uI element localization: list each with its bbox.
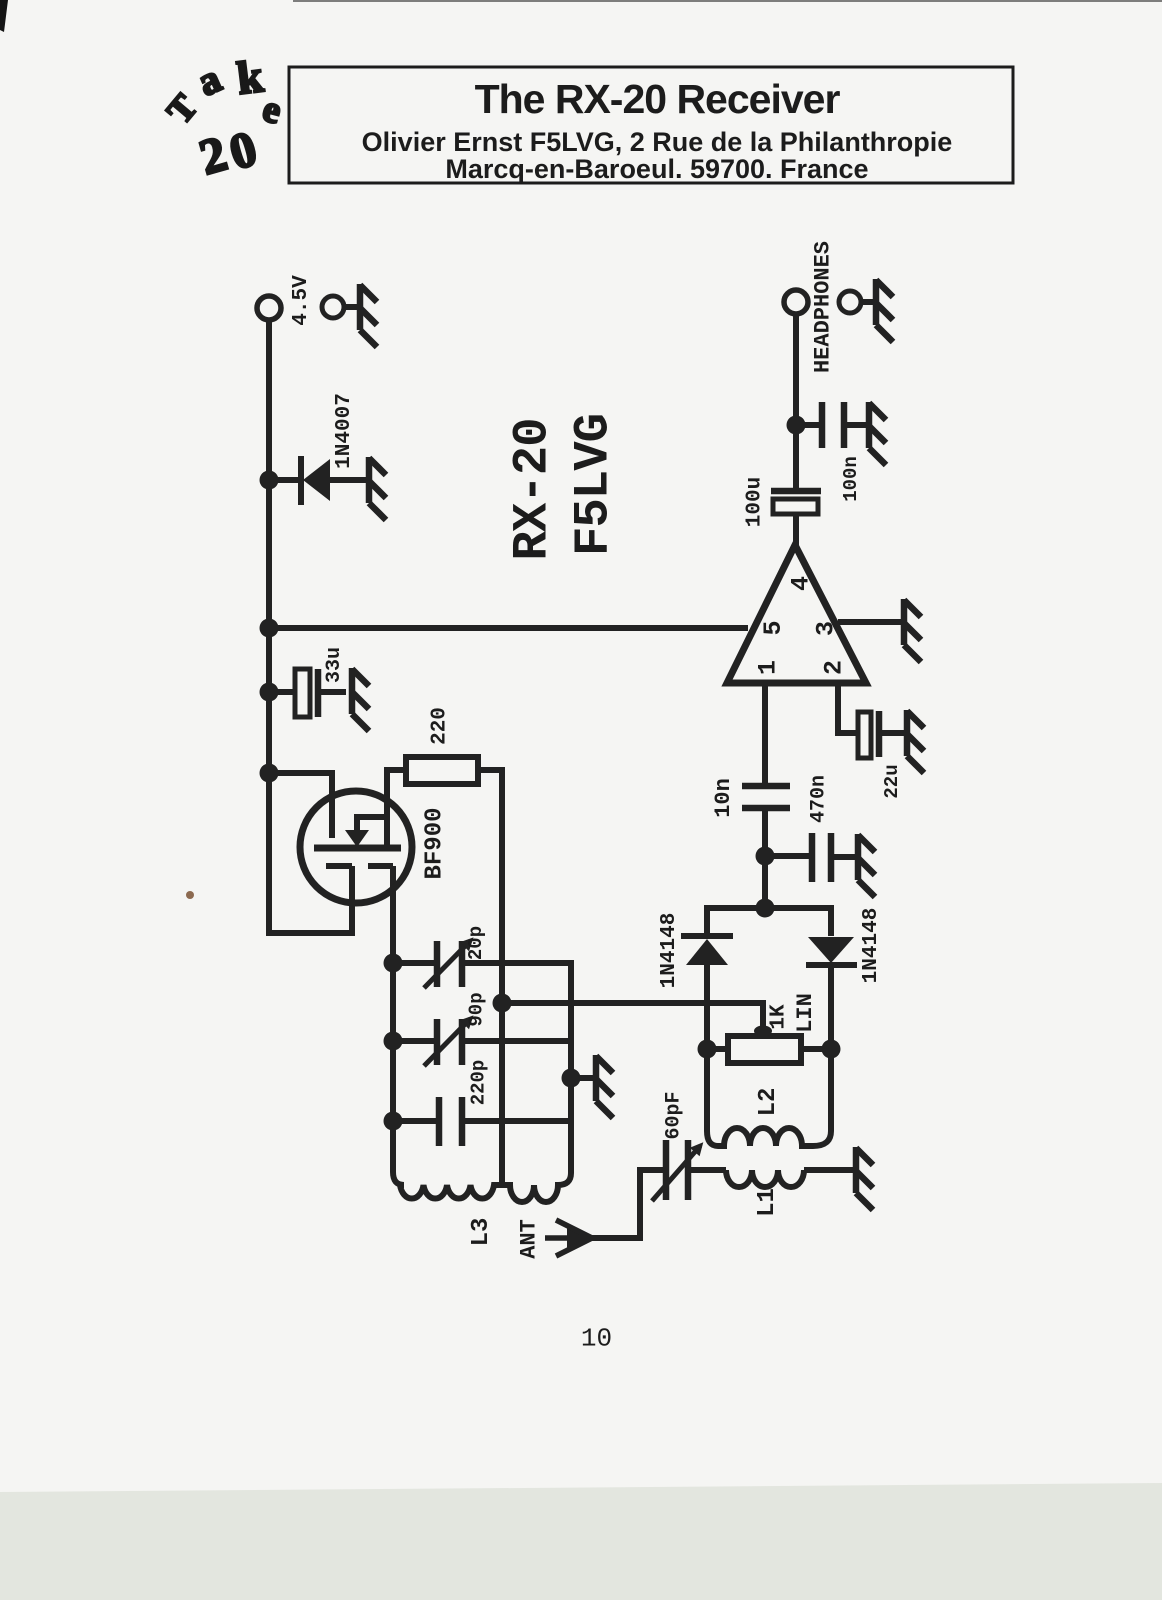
wire: tank ground stub	[571, 1075, 593, 1081]
wire: 33u branch	[269, 689, 346, 695]
wire: 20p row	[393, 963, 571, 1173]
junction dot rail/33u	[260, 683, 279, 702]
capacitor 220p plates	[439, 1097, 462, 1146]
junction dot headphones/100n/100u	[787, 416, 806, 435]
wire: op-amp pin 2 to 22u	[838, 683, 904, 733]
svg-text:Marcq-en-Baroeul. 59700. Franc: Marcq-en-Baroeul. 59700. France	[445, 154, 868, 184]
trimmer 90p arrowhead	[460, 1015, 474, 1029]
wire: antenna to 60pF	[590, 1170, 664, 1238]
svg-text:1N4007: 1N4007	[333, 393, 356, 469]
svg-text:10: 10	[581, 1324, 612, 1354]
trimmer 20p arrowhead	[460, 937, 474, 951]
junction dot tank ground	[562, 1069, 581, 1088]
inductor L2 winding	[707, 1122, 831, 1146]
top edge scan line	[293, 0, 1162, 2]
connector 4.5V terminal	[257, 296, 281, 320]
svg-text:The RX-20 Receiver: The RX-20 Receiver	[475, 76, 841, 122]
capacitor 22u electrolytic plates	[858, 712, 871, 758]
ground after 33u	[352, 668, 369, 731]
wire: source leads inside MOSFET	[326, 863, 352, 869]
diode D3 1N4007 triangle	[303, 459, 330, 501]
junction dot 90p left	[384, 1032, 403, 1051]
op-amp U1 triangle	[727, 545, 866, 683]
MOSFET drain electrode	[384, 770, 390, 846]
svg-text:20p: 20p	[465, 926, 487, 960]
svg-text:Olivier Ernst F5LVG, 2 Rue de: Olivier Ernst F5LVG, 2 Rue de la Philant…	[362, 127, 953, 157]
junction dot tank tap	[493, 994, 512, 1013]
wire: detector bridge top rail	[707, 908, 831, 936]
top-left corner mark	[0, 0, 8, 32]
svg-text:100u: 100u	[744, 477, 767, 527]
svg-text:L3: L3	[468, 1218, 495, 1247]
antenna prongs	[545, 1220, 592, 1256]
potentiometer wiper dot	[754, 1026, 772, 1037]
wire: 10n bottom lead down	[762, 809, 768, 908]
capacitor 20p plates	[437, 941, 462, 987]
wire: 4.5V ground stub	[344, 304, 357, 310]
svg-text:ANT: ANT	[517, 1219, 542, 1259]
wire: op-amp pin 1 down	[762, 683, 768, 785]
wire: 100u leads	[793, 425, 799, 545]
capacitor 90p plates	[437, 1019, 462, 1065]
inductor L1 winding	[726, 1170, 804, 1187]
capacitor 470n plates	[812, 833, 831, 882]
svg-text:L2: L2	[755, 1088, 782, 1117]
wire: L1 to ground	[804, 1167, 853, 1173]
junction dot rail/1N4007	[260, 471, 279, 490]
svg-text:470n: 470n	[808, 775, 831, 823]
MOSFET Q1 BF900 body circle	[300, 791, 412, 903]
diode D1 1N4148 left triangle	[686, 939, 728, 965]
ground at op-amp pin 3	[904, 599, 921, 662]
capacitor 100n plates	[822, 402, 844, 448]
small speck	[186, 891, 194, 899]
connector headphones return terminal	[839, 291, 861, 313]
junction dot bridge top	[756, 899, 775, 918]
inductor L3 left winding	[393, 1172, 502, 1199]
svg-text:60pF: 60pF	[663, 1091, 686, 1139]
junction dot rail/main wire	[260, 619, 279, 638]
MOSFET channel bar	[314, 845, 401, 852]
diode D2 cathode bar	[806, 962, 857, 968]
MOSFET body arrowhead	[345, 830, 369, 847]
wire: 100n leads	[796, 422, 866, 428]
potentiometer P1 1K LIN body	[728, 1036, 801, 1063]
capacitor 33u electrolytic plates	[295, 669, 310, 717]
trimmer 90p arrow	[424, 1019, 470, 1066]
svg-text:RX-20: RX-20	[505, 418, 561, 560]
junction dot 220p left	[384, 1112, 403, 1131]
junction dot 20p left	[384, 954, 403, 973]
junction dot left diode/pot	[698, 1040, 717, 1059]
wire: 1N4007 branch	[269, 477, 366, 483]
wire: drain to 220 resistor	[387, 770, 406, 846]
inductor L3 right winding	[502, 1173, 571, 1202]
svg-text:10n: 10n	[711, 778, 736, 818]
capacitor 100u electrolytic plates	[771, 488, 821, 495]
wire: 470n leads	[765, 856, 855, 857]
ground after 470n	[858, 834, 875, 897]
connector 4.5V return terminal	[322, 296, 344, 318]
svg-text:BF900: BF900	[422, 807, 449, 879]
antenna tip wedge	[567, 1228, 597, 1248]
trimmer 60pF arrow	[652, 1146, 700, 1201]
trimmer 60pF arrowhead	[690, 1142, 704, 1156]
svg-text:1N4148: 1N4148	[860, 908, 883, 984]
svg-text:220p: 220p	[468, 1060, 490, 1106]
svg-text:1: 1	[754, 660, 783, 675]
ground near 4.5V	[360, 284, 377, 347]
wire: left diode bottom lead	[704, 965, 710, 1122]
svg-text:33u: 33u	[323, 647, 346, 683]
"Take 20" stamp	[159, 50, 286, 185]
wire: 220p row	[393, 1118, 571, 1124]
ground of tank circuit	[596, 1055, 613, 1118]
ground near headphones	[876, 279, 893, 342]
trimmer capacitor 60pF plates	[666, 1140, 688, 1200]
svg-text:HEADPHONES: HEADPHONES	[811, 241, 836, 373]
svg-text:1K: 1K	[768, 1004, 791, 1030]
svg-text:F5LVG: F5LVG	[566, 414, 622, 556]
wire: gate2 branch	[269, 773, 332, 838]
svg-text:4: 4	[787, 576, 816, 591]
diode D2 1N4148 right triangle	[808, 937, 854, 963]
wire: tank tap to potentiometer wiper	[502, 1003, 763, 1031]
svg-text:100n: 100n	[840, 456, 862, 502]
wire: 90p row	[393, 1038, 571, 1044]
svg-text:1N4148: 1N4148	[658, 913, 681, 989]
wire: op-amp pin 3 to ground	[838, 619, 901, 625]
title box	[289, 67, 1013, 183]
wire: headphones down lead	[793, 314, 799, 425]
MOSFET body-arrow branch	[357, 817, 387, 831]
svg-text:220: 220	[429, 707, 452, 745]
svg-text:4.5V: 4.5V	[290, 275, 313, 326]
resistor R1 220 body	[406, 757, 478, 784]
svg-text:L1: L1	[754, 1188, 781, 1217]
wire: 220 resistor right to tank tap	[478, 770, 502, 1185]
wire: potentiometer end leads	[707, 1046, 831, 1052]
ground after 1N4007	[369, 457, 386, 520]
connector headphones terminal	[784, 290, 808, 314]
wire: right diode bottom lead	[828, 965, 834, 1122]
capacitor 10n plates	[742, 786, 790, 808]
svg-text:3: 3	[812, 621, 841, 636]
wire: main horizontal rail to op-amp pin 5	[269, 625, 748, 631]
diode D1 cathode bar	[681, 933, 733, 939]
ground after L1	[856, 1147, 873, 1210]
wire: 60pF to L1	[690, 1167, 726, 1173]
svg-text:2: 2	[820, 660, 849, 675]
junction dot right diode/pot	[822, 1040, 841, 1059]
junction dot 10n/470n	[756, 847, 775, 866]
wire: headphones ground stub	[862, 299, 873, 305]
ground after 100n	[869, 402, 886, 465]
svg-text:22u: 22u	[881, 764, 903, 798]
scanner bed band at bottom	[0, 1483, 1162, 1600]
trimmer 20p arrow	[424, 941, 470, 988]
junction dot rail/gate2	[260, 764, 279, 783]
ground after 22u	[907, 710, 924, 773]
diode D3 1N4007 cathode bar	[298, 456, 304, 505]
svg-text:90p: 90p	[466, 992, 488, 1026]
svg-text:LIN: LIN	[793, 993, 818, 1033]
wire: gate1 vertical down tank left rail	[368, 866, 393, 1172]
wire: left supply rail with bottom corner to source	[269, 320, 352, 933]
svg-text:5: 5	[759, 620, 788, 635]
